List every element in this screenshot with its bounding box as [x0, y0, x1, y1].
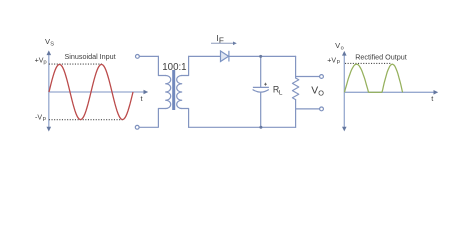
dashed line -Vp level — [49, 119, 124, 121]
svg-text:V: V — [311, 85, 318, 96]
current arrow IF — [211, 42, 234, 44]
terminal input bottom — [135, 125, 139, 129]
svg-text:Rectified Output: Rectified Output — [355, 52, 407, 61]
svg-text:t: t — [141, 94, 143, 103]
svg-text:S: S — [50, 42, 54, 48]
node Vs vertical axis — [47, 50, 52, 131]
capacitor top lead — [260, 56, 262, 87]
diode D1 — [221, 51, 229, 62]
wire: primary top lead — [158, 56, 165, 75]
sine wave — [49, 65, 133, 120]
rectified flat segment — [369, 91, 383, 93]
resistor RL top lead — [295, 56, 297, 78]
svg-text:F: F — [219, 36, 224, 45]
capacitor bottom lead — [260, 93, 262, 128]
terminal output top — [320, 75, 324, 79]
svg-text:t: t — [431, 94, 433, 103]
node Vo vertical axis — [342, 51, 347, 131]
rectified hump 1 — [345, 64, 369, 92]
wire: secondary bottom lead — [182, 109, 189, 128]
rectified hump 2 — [382, 64, 403, 92]
transformer core bar — [172, 70, 175, 110]
svg-text:o: o — [341, 46, 344, 52]
wire: bottom rail — [189, 126, 296, 128]
node junction top — [259, 55, 262, 58]
svg-text:O: O — [318, 89, 324, 98]
svg-text:+V: +V — [35, 57, 44, 65]
terminal output bottom — [320, 107, 324, 111]
wire: primary bottom lead — [139, 109, 166, 128]
dashed line +Vp level — [49, 63, 103, 65]
capacitor C plates — [253, 87, 269, 92]
wire: secondary top lead — [182, 56, 189, 75]
wire: output stub bottom — [296, 108, 320, 110]
node t horizontal axis (right graph) — [344, 90, 438, 95]
node t horizontal axis (left graph) — [49, 90, 148, 95]
wire: output stub top — [296, 76, 320, 78]
transformer secondary winding — [177, 76, 182, 109]
svg-text:Sinusoidal Input: Sinusoidal Input — [65, 52, 116, 61]
svg-text:L: L — [279, 90, 283, 97]
dashed line +Vp level (right) — [345, 62, 391, 64]
svg-text:100:1: 100:1 — [162, 62, 186, 73]
node junction bottom — [259, 126, 262, 129]
resistor RL zigzag — [292, 78, 298, 100]
svg-text:-V: -V — [35, 113, 42, 121]
terminal input top — [136, 55, 140, 59]
wire: top rail diode to resistor — [229, 55, 296, 57]
wire: top rail secondary to diode — [189, 55, 221, 57]
wire: input top — [139, 55, 158, 57]
capacitor polarity + — [264, 83, 267, 86]
transformer primary winding — [166, 76, 171, 109]
resistor RL bottom lead — [295, 100, 297, 128]
svg-text:+V: +V — [327, 56, 336, 64]
